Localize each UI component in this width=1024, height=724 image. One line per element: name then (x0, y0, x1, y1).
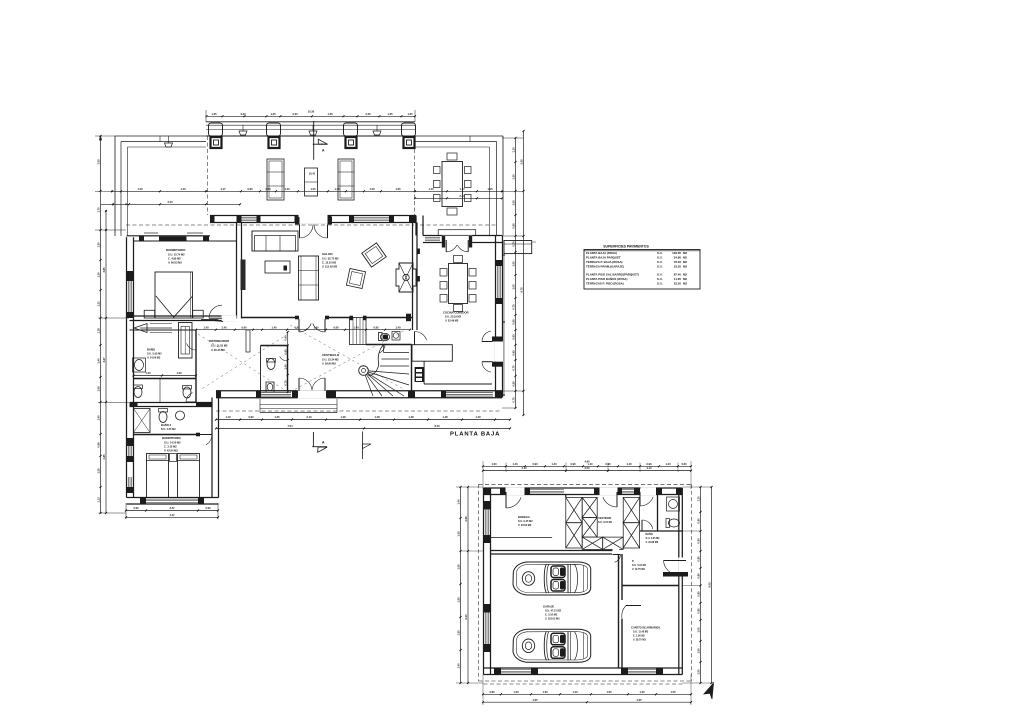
porch pillar P2 cap (267, 123, 281, 136)
garage top wall windows (526, 488, 639, 495)
svg-text:4.65: 4.65 (532, 698, 538, 702)
section flag top (313, 121, 328, 160)
svg-text:1.30: 1.30 (96, 272, 100, 278)
left extension lines (95, 136, 129, 513)
svg-text:S.U. 9.45 M2: S.U. 9.45 M2 (518, 520, 533, 523)
left dimension chain inner (105, 211, 107, 513)
svg-text:1.40: 1.40 (96, 415, 100, 421)
svg-text:C. 3.15 M2: C. 3.15 M2 (164, 445, 177, 449)
svg-text:1.48: 1.48 (408, 415, 414, 419)
svg-text:0.90: 0.90 (205, 506, 211, 510)
svg-text:1.10: 1.10 (225, 415, 231, 419)
comedor chairs (440, 256, 476, 312)
garage door jambs and pillars top wall (484, 488, 683, 495)
porch pillar P2 base (269, 137, 280, 148)
svg-text:2.95: 2.95 (464, 516, 468, 522)
svg-text:78.02: 78.02 (674, 260, 682, 264)
porch pillar P3 cap (344, 123, 358, 136)
radiator salon west wall (241, 260, 246, 291)
garage vestidor label (598, 516, 613, 524)
svg-text:1.05: 1.05 (487, 187, 493, 191)
salon south wall and vestibule north wall (242, 314, 414, 322)
garage right extension lines (682, 487, 711, 683)
svg-text:1.40: 1.40 (334, 187, 340, 191)
svg-text:4.10: 4.10 (521, 466, 527, 470)
garage wardrobes west strip (566, 497, 582, 548)
svg-text:1.00: 1.00 (696, 669, 700, 675)
bath1 door (195, 340, 197, 350)
svg-text:1.00: 1.00 (310, 187, 316, 191)
svg-text:PLANTA BAJA PARQUET: PLANTA BAJA PARQUET (586, 256, 621, 260)
svg-text:4.90: 4.90 (584, 460, 590, 464)
svg-text:1.40: 1.40 (512, 462, 518, 466)
svg-text:M2: M2 (683, 265, 687, 269)
svg-text:1.30: 1.30 (96, 242, 100, 248)
svg-text:0.80: 0.80 (489, 690, 495, 694)
svg-text:1.10: 1.10 (511, 147, 515, 153)
svg-text:1.30: 1.30 (511, 174, 515, 180)
svg-text:DORMITORIO: DORMITORIO (162, 436, 181, 440)
svg-text:1.40: 1.40 (145, 371, 151, 375)
garage bottom extension lines (483, 675, 691, 706)
svg-text:3.40: 3.40 (167, 200, 173, 204)
chimney on east wall (504, 241, 532, 254)
svg-text:V. 43.94 M3: V. 43.94 M3 (164, 449, 178, 453)
svg-text:VESTIBULO: VESTIBULO (322, 353, 340, 357)
svg-text:S.U. 11.48 M2: S.U. 11.48 M2 (633, 631, 649, 634)
dormitorio2 label (162, 436, 181, 453)
svg-text:1.40: 1.40 (313, 325, 319, 329)
garage bottom dashed line (484, 683, 683, 685)
svg-text:2.30: 2.30 (365, 112, 371, 116)
svg-text:0.95: 0.95 (373, 325, 379, 329)
svg-text:1.35: 1.35 (211, 112, 217, 116)
east exterior wall with kitchen window (496, 236, 503, 398)
right dimension chain inner (515, 138, 517, 408)
svg-text:1.35: 1.35 (407, 112, 413, 116)
svg-text:CUARTO DE ARMARIOS: CUARTO DE ARMARIOS (631, 627, 660, 630)
svg-text:23.20: 23.20 (674, 282, 682, 286)
svg-text:S.U. 6.10 M2: S.U. 6.10 M2 (598, 521, 613, 524)
svg-text:0.65: 0.65 (511, 350, 515, 356)
garage vestidor door (616, 492, 618, 507)
svg-text:M2: M2 (683, 251, 687, 255)
kitchen appliance dark block (415, 367, 425, 382)
svg-text:1.40: 1.40 (284, 364, 288, 370)
garage bay corner door (613, 554, 621, 556)
svg-text:S.U. 5.10 M2: S.U. 5.10 M2 (632, 564, 647, 567)
svg-text:4.47: 4.47 (169, 513, 175, 517)
svg-text:1.40: 1.40 (626, 462, 632, 466)
svg-text:0.80: 0.80 (696, 556, 700, 562)
double door vestibule to salon (299, 319, 325, 332)
bath3 shower (134, 409, 151, 433)
staircase with winders (359, 345, 409, 397)
svg-text:V. 14.56 M3: V. 14.56 M3 (147, 357, 161, 360)
svg-text:1.40: 1.40 (369, 187, 375, 191)
svg-text:1.55: 1.55 (456, 597, 460, 603)
south exterior wall (216, 391, 502, 398)
bedroom1 door swing arrow (201, 320, 223, 322)
wardrobe cabinet distribuidor (179, 323, 193, 359)
north arrow (704, 683, 714, 699)
svg-text:1.18: 1.18 (96, 328, 100, 334)
bottom dashed line main plan (216, 410, 502, 412)
svg-text:S.U. 35.75 M2: S.U. 35.75 M2 (322, 257, 339, 261)
svg-text:1.55: 1.55 (456, 630, 460, 636)
svg-text:SUPERFICIES PAVIMENTOS: SUPERFICIES PAVIMENTOS (603, 245, 649, 249)
svg-text:0.90: 0.90 (605, 462, 611, 466)
bath2 south wall band (130, 403, 213, 407)
surface areas table rows (584, 251, 700, 286)
svg-text:1.00: 1.00 (176, 371, 182, 375)
svg-text:1.40: 1.40 (221, 325, 227, 329)
armchair rotated salon (362, 243, 386, 267)
svg-text:0.96: 0.96 (96, 442, 100, 448)
svg-text:1.40: 1.40 (284, 187, 290, 191)
svg-text:7.04: 7.04 (287, 424, 293, 428)
wing bottom dimension chain (125, 503, 219, 519)
wc door (287, 352, 289, 361)
garage bath sink (667, 497, 680, 511)
double door salon to porch (295, 214, 332, 238)
wc partition walls (261, 346, 288, 392)
svg-text:1.48: 1.48 (374, 415, 380, 419)
salon label (322, 252, 339, 269)
bottom dimension chain 2 (216, 427, 510, 429)
svg-text:0.90: 0.90 (247, 187, 253, 191)
section flag bottom (312, 432, 327, 452)
bedroom1 door (222, 315, 237, 321)
svg-text:0.80: 0.80 (696, 573, 700, 579)
svg-text:0.75: 0.75 (511, 397, 515, 403)
surface areas table box (584, 250, 700, 290)
garage right rooms divider (622, 585, 679, 587)
bath3 toilet (159, 409, 168, 423)
garage wardrobe bottom band (582, 537, 623, 549)
svg-text:1.55: 1.55 (456, 531, 460, 537)
porch lounger 2 (338, 159, 354, 200)
south wall of wing (127, 498, 219, 505)
terrace dining table (442, 162, 463, 207)
svg-text:1.10: 1.10 (696, 496, 700, 502)
svg-text:1.55: 1.55 (456, 564, 460, 570)
svg-text:1.35: 1.35 (96, 468, 100, 474)
svg-text:S.U. 11.81 M2: S.U. 11.81 M2 (211, 344, 228, 348)
svg-text:M2: M2 (683, 282, 687, 286)
svg-text:S.U.: S.U. (657, 265, 663, 269)
garage wardrobes east strip (623, 497, 639, 548)
cuarto de armarios label (631, 627, 660, 642)
svg-text:S.U.: S.U. (657, 256, 663, 260)
garage storeroom door (622, 606, 641, 620)
svg-text:1.22: 1.22 (96, 301, 100, 307)
svg-text:1.40: 1.40 (395, 325, 401, 329)
svg-text:0.80: 0.80 (696, 608, 700, 614)
porch pillar P1 cap (209, 123, 223, 136)
svg-text:0.65: 0.65 (511, 381, 515, 387)
svg-text:4.65: 4.65 (636, 698, 642, 702)
svg-text:SALON: SALON (322, 252, 333, 256)
svg-text:0.65: 0.65 (511, 319, 515, 325)
svg-text:V. 112.03 M3: V. 112.03 M3 (322, 265, 338, 269)
distribuidor-bath partition (130, 330, 197, 403)
stair east wall (411, 345, 413, 391)
svg-text:1.40: 1.40 (96, 358, 100, 364)
svg-text:1.40: 1.40 (665, 462, 671, 466)
svg-text:V. 52.49 M3: V. 52.49 M3 (445, 320, 459, 323)
svg-text:M2: M2 (683, 277, 687, 281)
garage left wall windows (484, 501, 491, 652)
radiator hall (246, 330, 250, 352)
svg-text:0.80: 0.80 (696, 591, 700, 597)
svg-text:P.: P. (632, 560, 634, 563)
kitchen counter peninsula (412, 345, 492, 384)
west exterior wall of wing (127, 237, 134, 497)
svg-text:0.65: 0.65 (511, 334, 515, 340)
svg-text:0.90: 0.90 (570, 462, 576, 466)
svg-text:1.35: 1.35 (387, 112, 393, 116)
svg-text:M2: M2 (683, 273, 687, 277)
svg-text:0.70: 0.70 (511, 365, 515, 371)
garage left dimension chain outer (460, 487, 462, 683)
svg-text:4.10: 4.10 (646, 466, 652, 470)
svg-text:S.U. 47.21 M2: S.U. 47.21 M2 (545, 610, 562, 613)
svg-text:10.30: 10.30 (308, 110, 315, 114)
garage bath door top (639, 492, 641, 506)
nightstand right of bed (193, 310, 204, 318)
cocina-comedor label (443, 311, 469, 323)
comedor table (449, 264, 468, 304)
svg-text:10.41: 10.41 (309, 172, 316, 176)
terrace dining chairs (434, 153, 472, 215)
bed bedroom1 (155, 272, 193, 318)
svg-text:0.75: 0.75 (511, 304, 515, 310)
car 2 in garage (513, 629, 591, 662)
svg-text:S.U.: S.U. (657, 251, 663, 255)
twin bed 2 dormitorio2 (178, 454, 200, 498)
garage bottom dimension chain 1 (483, 693, 691, 695)
side table salon (346, 269, 365, 289)
bath1-bath2 partition (134, 378, 197, 380)
garage top dimension chain 2 (483, 470, 691, 472)
svg-text:V. 28.70 M3: V. 28.70 M3 (633, 639, 646, 642)
east wall of wing lower part (212, 398, 219, 498)
svg-text:VESTIDOR: VESTIDOR (598, 516, 611, 520)
svg-text:1.05: 1.05 (96, 159, 100, 165)
wc by stairs toilet (379, 333, 390, 341)
svg-text:0.60: 0.60 (333, 325, 339, 329)
bath1 label (147, 347, 162, 360)
kitchen east french window (482, 331, 503, 372)
svg-text:1.40: 1.40 (137, 187, 143, 191)
fireplace column (396, 263, 416, 292)
svg-text:0.90: 0.90 (696, 518, 700, 524)
wc by stairs sink (392, 332, 400, 341)
distribuidor label (209, 339, 229, 352)
svg-text:0.90: 0.90 (532, 462, 538, 466)
svg-text:V. 30.45 M3: V. 30.45 M3 (211, 348, 225, 352)
north wall of comedor-kitchen (423, 236, 502, 243)
porch beam lines (206, 122, 415, 136)
garage top dimension chain 1 (483, 465, 691, 467)
wc toilet (267, 359, 276, 370)
svg-text:11.65: 11.65 (674, 277, 681, 281)
svg-text:1.30: 1.30 (542, 690, 548, 694)
nightstand left of bed (144, 310, 155, 318)
cabinet bookshelf salon (299, 256, 319, 300)
svg-text:BODEGA: BODEGA (518, 515, 530, 519)
svg-text:COCINA-COMEDOR: COCINA-COMEDOR (443, 311, 469, 315)
svg-text:139.05: 139.05 (672, 251, 681, 255)
svg-text:9.05: 9.05 (707, 582, 711, 588)
svg-text:2.47: 2.47 (169, 506, 175, 510)
svg-text:TERRAZA P. BAJA (ROSA): TERRAZA P. BAJA (ROSA) (586, 260, 623, 264)
svg-text:C. 12.10 M2: C. 12.10 M2 (322, 261, 337, 265)
svg-text:0.95: 0.95 (294, 325, 300, 329)
garage top-left room label (518, 515, 533, 527)
bedroom1-salon partition wall (237, 223, 242, 319)
garage right dimension chain outer (711, 487, 713, 683)
hall dimension chain (196, 329, 410, 331)
kitchen door from hall (414, 332, 416, 345)
svg-text:0.90: 0.90 (511, 223, 515, 229)
salon-comedor divider wall (413, 223, 418, 331)
svg-text:1.40: 1.40 (203, 325, 209, 329)
garage bottom wall windows (494, 668, 663, 675)
porch lounger 1 (267, 159, 284, 200)
svg-text:C. 1.90 M2: C. 1.90 M2 (633, 635, 645, 638)
comedor radiators on fireplace wall (417, 249, 420, 282)
svg-text:BAÑO: BAÑO (147, 347, 156, 352)
svg-text:DORMITORIO: DORMITORIO (166, 248, 186, 252)
interior vertical dimension chain at wc wall (287, 332, 289, 392)
svg-text:1.40: 1.40 (456, 499, 460, 505)
garage bath toilet (666, 519, 680, 528)
svg-text:C. 4.80 M2: C. 4.80 M2 (168, 257, 181, 261)
bath3 sink round (176, 411, 185, 420)
porch pillar P1 base (211, 137, 222, 148)
svg-text:PLANTA PISO BAÑOS (ROSA): PLANTA PISO BAÑOS (ROSA) (586, 276, 627, 281)
garage right room label (632, 560, 647, 571)
svg-text:0.65: 0.65 (284, 349, 288, 355)
porch small table (305, 168, 318, 196)
garage top extension lines (483, 461, 691, 489)
svg-text:6.20: 6.20 (464, 614, 468, 620)
svg-text:2.30: 2.30 (292, 112, 298, 116)
garage wardrobes mid strip (582, 497, 597, 537)
svg-text:1.13: 1.13 (96, 497, 100, 503)
porch pillar P4 cap (402, 123, 416, 136)
svg-text:PLANTA BAJA (ROSA): PLANTA BAJA (ROSA) (586, 251, 617, 255)
svg-text:1.05: 1.05 (395, 187, 401, 191)
bath1 dimension chain (134, 375, 197, 377)
svg-text:PLANTA PISO SAL BARRO(PARQUET): PLANTA PISO SAL BARRO(PARQUET) (586, 273, 639, 277)
bath3 label (161, 422, 176, 431)
svg-text:0.90: 0.90 (133, 506, 139, 510)
closet sliding arrow bedroom1 (134, 324, 172, 333)
svg-text:0.90: 0.90 (696, 538, 700, 544)
bottom dimension chain 1 (216, 419, 510, 421)
svg-text:87.40: 87.40 (674, 273, 682, 277)
svg-text:0.90: 0.90 (248, 415, 254, 419)
svg-text:1.00: 1.00 (696, 648, 700, 654)
svg-text:V. 56.03 M3: V. 56.03 M3 (168, 261, 182, 265)
svg-text:1.70: 1.70 (96, 207, 100, 213)
svg-text:1.30: 1.30 (639, 690, 645, 694)
svg-text:34.80: 34.80 (674, 256, 682, 260)
svg-text:2.30: 2.30 (240, 112, 246, 116)
bath2 door (186, 401, 196, 403)
svg-text:S.U. 5.60 M2: S.U. 5.60 M2 (147, 353, 162, 356)
nightstand between beds (170, 454, 177, 462)
svg-text:1.40: 1.40 (551, 462, 557, 466)
roof overhang dashed line (126, 136, 497, 225)
svg-text:GARAJE: GARAJE (543, 605, 554, 609)
svg-text:0.90: 0.90 (646, 462, 652, 466)
bedroom1 south wall (130, 316, 237, 321)
svg-text:0.60: 0.60 (265, 187, 271, 191)
svg-text:TERRAZAS P. PISO (ROSA): TERRAZAS P. PISO (ROSA) (586, 282, 624, 286)
vestibulo label (322, 353, 340, 366)
svg-text:V. 23.60 M3: V. 23.60 M3 (518, 524, 532, 527)
svg-text:V. 10.88 M3: V. 10.88 M3 (646, 541, 659, 544)
svg-text:C. 5.10 M2: C. 5.10 M2 (545, 614, 558, 617)
garaje label (543, 605, 562, 621)
svg-text:1.40: 1.40 (456, 663, 460, 669)
svg-text:3.67: 3.67 (102, 357, 106, 363)
svg-text:S.U.: S.U. (657, 282, 663, 286)
svg-text:0.60: 0.60 (241, 325, 247, 329)
bath1 sink (133, 358, 146, 372)
twin bed 1 dormitorio2 (147, 454, 169, 498)
north exterior wall of salon (210, 216, 416, 223)
right extension lines (502, 138, 536, 408)
bedroom1 room label (166, 248, 186, 265)
garage bath partition (640, 495, 683, 532)
svg-text:1.40: 1.40 (180, 187, 186, 191)
svg-text:DISTRIBUIDOR: DISTRIBUIDOR (209, 339, 229, 343)
svg-text:S.U. 15.74 M2: S.U. 15.74 M2 (168, 253, 185, 257)
left dimension chain outer (100, 136, 102, 513)
svg-text:S.U.: S.U. (657, 277, 663, 281)
entry landing steps (260, 399, 337, 413)
svg-text:2.00: 2.00 (584, 466, 590, 470)
terrace corner lamp symbol (165, 136, 173, 147)
svg-text:1.40: 1.40 (271, 325, 277, 329)
svg-text:S.U. 14.50 M2: S.U. 14.50 M2 (164, 441, 181, 445)
svg-text:1.00: 1.00 (511, 284, 515, 290)
svg-text:S.U. 4.35 M2: S.U. 4.35 M2 (646, 537, 661, 540)
horizontal dimension chain across plan (101, 187, 503, 205)
svg-text:S.U. 4.25 M2: S.U. 4.25 M2 (161, 428, 176, 431)
svg-text:1.35: 1.35 (274, 415, 280, 419)
sofa in salon (252, 231, 298, 251)
top dimension chain of porch (206, 110, 416, 123)
svg-text:1.00: 1.00 (491, 462, 497, 466)
garage left extension lines (456, 487, 483, 683)
entry door double leaf (294, 378, 330, 398)
svg-text:1.09: 1.09 (96, 386, 100, 392)
svg-text:V. 12.75 M3: V. 12.75 M3 (632, 568, 645, 571)
svg-text:1.65: 1.65 (606, 690, 612, 694)
porch pillar P3 base (346, 137, 357, 148)
garage right room door exterior (663, 558, 688, 577)
svg-text:1.55: 1.55 (670, 690, 676, 694)
garage bay east wall (619, 554, 623, 668)
svg-text:6.75: 6.75 (519, 287, 523, 293)
svg-text:1.00: 1.00 (696, 627, 700, 633)
